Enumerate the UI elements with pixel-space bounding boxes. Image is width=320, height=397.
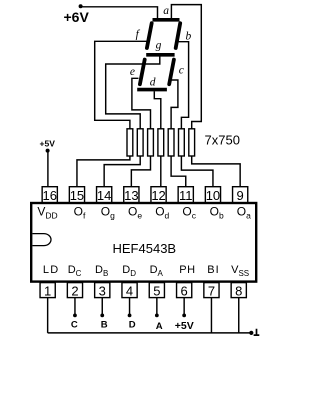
wire segment f to resistor R1 — [95, 41, 147, 129]
segment a — [153, 18, 180, 22]
pin 8 box — [231, 283, 246, 298]
terminal A dot — [155, 314, 159, 318]
svg-text:A: A — [156, 321, 163, 332]
svg-text:9: 9 — [237, 188, 244, 203]
segment d — [137, 88, 167, 92]
terminal +5V: wire pin 6 — [183, 298, 185, 315]
wire R3 to pin 13 — [131, 156, 150, 187]
svg-text:+5V: +5V — [175, 320, 194, 332]
svg-text:a: a — [163, 5, 169, 17]
svg-text:12: 12 — [151, 188, 165, 203]
svg-text:PH: PH — [179, 264, 195, 276]
pin 4 box — [122, 283, 137, 298]
ground symbol — [254, 329, 260, 335]
svg-text:c: c — [179, 65, 184, 77]
wire segment g to resistor R2 — [106, 56, 160, 129]
pin 10 box — [205, 187, 220, 203]
terminal B dot — [100, 314, 104, 318]
wire R2 to pin 14 — [104, 156, 140, 187]
svg-text:+5V: +5V — [40, 139, 56, 149]
wire segment b to resistor R6 — [177, 42, 189, 129]
resistor R4 — [158, 129, 164, 156]
resistor R1 — [127, 129, 133, 156]
svg-text:11: 11 — [179, 188, 193, 203]
wire segment d to resistor R4 — [154, 91, 161, 129]
svg-text:7x750: 7x750 — [205, 133, 240, 148]
svg-text:6: 6 — [181, 284, 188, 299]
segment e — [140, 60, 145, 85]
svg-text:4: 4 — [126, 284, 133, 299]
pin 1 box — [40, 283, 55, 298]
wire R6 to pin 10 — [181, 156, 213, 187]
svg-text:C: C — [71, 319, 78, 330]
pin 11 box — [178, 187, 193, 203]
wire R4 to pin 12 — [160, 156, 162, 187]
svg-text:14: 14 — [97, 188, 111, 203]
svg-text:d: d — [150, 76, 156, 88]
segment g — [146, 53, 174, 57]
svg-text:e: e — [130, 66, 135, 78]
segment b — [176, 23, 181, 48]
terminal A: wire pin 5 — [156, 298, 158, 315]
IC U1 HEF4543B body — [31, 203, 256, 282]
wire R7 to pin 9 — [192, 156, 240, 187]
pin 6 box — [177, 283, 192, 298]
7-segment display — [137, 20, 180, 90]
svg-text:2: 2 — [71, 284, 78, 299]
wire R1 to pin 15 — [77, 156, 130, 187]
segment f — [147, 23, 152, 48]
terminal D dot — [128, 314, 132, 318]
wire segment c to resistor R5 — [171, 80, 178, 129]
svg-text:10: 10 — [206, 188, 220, 203]
ground rail junction dot — [249, 331, 253, 335]
svg-text:BI: BI — [207, 264, 219, 276]
pin 2 box — [67, 283, 82, 298]
svg-text:5: 5 — [153, 284, 160, 299]
svg-text:g: g — [156, 39, 162, 51]
resistor R5 — [168, 129, 174, 156]
svg-text:7: 7 — [208, 284, 215, 299]
svg-text:13: 13 — [124, 188, 138, 203]
terminal +5V dot — [182, 314, 186, 318]
svg-text:LD: LD — [43, 264, 60, 276]
wire +5V to pin 16 — [47, 151, 49, 187]
svg-text:16: 16 — [43, 188, 57, 203]
svg-text:+6V: +6V — [64, 9, 90, 25]
+6V supply dot — [79, 4, 83, 8]
pin 16 box — [42, 187, 57, 203]
terminal B: wire pin 3 — [101, 298, 103, 315]
svg-text:D: D — [129, 319, 136, 330]
pin 3 box — [95, 283, 110, 298]
pin 14 box — [97, 187, 112, 203]
resistor R6 — [179, 129, 185, 156]
svg-text:HEF4543B: HEF4543B — [113, 241, 177, 256]
resistor R3 — [148, 129, 154, 156]
terminal C: wire pin 2 — [74, 298, 76, 315]
IC notch — [33, 234, 52, 246]
wire pin 7 to ground rail — [210, 298, 212, 333]
resistor R2 — [137, 129, 143, 156]
svg-text:b: b — [186, 30, 192, 42]
pin 9 box — [233, 187, 248, 203]
pin 13 box — [124, 187, 139, 203]
resistor R7 — [189, 129, 195, 156]
segment c — [169, 60, 174, 85]
svg-text:15: 15 — [70, 188, 84, 203]
pin 5 box — [149, 283, 164, 298]
wire segment e to resistor R3 — [132, 78, 151, 129]
+5V supply dot (top left) — [46, 149, 50, 153]
wire R5 to pin 11 — [171, 156, 186, 187]
terminal C dot — [73, 314, 77, 318]
pin 12 box — [151, 187, 166, 203]
svg-text:8: 8 — [235, 284, 242, 299]
svg-text:B: B — [101, 319, 108, 330]
terminal D: wire pin 4 — [129, 298, 131, 315]
ground rail — [48, 332, 252, 334]
svg-text:3: 3 — [99, 284, 106, 299]
pin 7 box — [204, 283, 219, 298]
wire pin 1 to ground rail — [47, 298, 49, 333]
wire segment a to resistor R7 — [171, 5, 201, 129]
pin 15 box — [69, 187, 84, 203]
wire pin 8 to ground rail — [238, 298, 240, 333]
svg-text:1: 1 — [44, 284, 51, 299]
wire +6V to segment a — [81, 7, 158, 19]
